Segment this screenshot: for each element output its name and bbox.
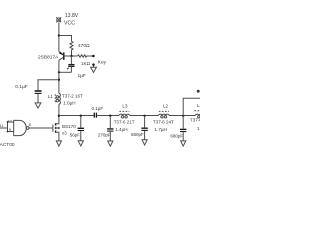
svg-text:470Ω: 470Ω	[78, 43, 90, 49]
ground under C6	[108, 141, 113, 146]
svg-text:T37-6 24T: T37-6 24T	[153, 119, 174, 124]
svg-text:11: 11	[0, 123, 4, 128]
svg-text:56pF: 56pF	[70, 132, 81, 137]
svg-text:74ACT00: 74ACT00	[0, 142, 15, 148]
ground under Q2 source	[56, 141, 61, 146]
wire gate drive	[29, 127, 53, 129]
ground under C8	[181, 141, 186, 146]
svg-text:VCC: VCC	[64, 21, 75, 27]
svg-text:1.4µH: 1.4µH	[115, 127, 127, 132]
power VCC 13.8V	[56, 13, 79, 27]
wire main line segment 3	[130, 115, 159, 117]
svg-text:L2: L2	[163, 104, 169, 109]
ground under C4	[78, 141, 83, 146]
svg-text:1.5µH: 1.5µH	[197, 126, 200, 131]
svg-text:Key: Key	[98, 59, 107, 65]
transistor Q2 BS170 MOSFET	[53, 116, 76, 141]
svg-text:2SB817A: 2SB817A	[38, 55, 59, 61]
node C6 junction	[109, 115, 111, 117]
capacitor C4 56pF	[70, 116, 84, 141]
capacitor C6 270pF	[98, 116, 114, 142]
ground under key	[91, 66, 97, 73]
capacitor C8 680pF	[170, 116, 186, 141]
capacitor C7 680pF	[131, 116, 148, 140]
svg-text:T37-6 24T: T37-6 24T	[190, 117, 200, 122]
svg-text:1.0µH: 1.0µH	[63, 101, 75, 106]
NAND gate U1A 74ACT00	[0, 119, 31, 148]
transistor Q1 2SB817A PNP	[38, 51, 64, 60]
wire branch to R1	[59, 36, 72, 42]
node output junction	[182, 115, 184, 117]
node collector junction 2	[58, 79, 60, 81]
svg-text:T37-6 21T: T37-6 21T	[114, 119, 135, 124]
svg-text:0.1µF: 0.1µF	[15, 84, 27, 90]
wire main line segment 4	[169, 115, 195, 117]
ground under C7	[142, 140, 147, 145]
ground under C1	[35, 103, 41, 108]
wire to bypass cap	[38, 80, 59, 91]
resistor R2 1K	[78, 55, 91, 66]
node VCC branch junction	[58, 34, 60, 36]
node base junction	[70, 55, 72, 57]
svg-text:1.7µH: 1.7µH	[155, 127, 167, 132]
resistor R1 470	[70, 41, 90, 56]
svg-text:x3: x3	[62, 130, 67, 135]
svg-text:0.1µF: 0.1µF	[92, 106, 104, 111]
node C4 junction	[80, 115, 82, 117]
capacitor C2 1uF	[67, 56, 86, 79]
wire L1 to drain node	[58, 104, 60, 115]
wire main line segment 1	[59, 115, 94, 117]
svg-text:BS170: BS170	[62, 124, 76, 129]
wire VCC rail down to emitter	[58, 23, 60, 52]
svg-text:8: 8	[29, 122, 31, 127]
svg-text:680pF: 680pF	[131, 132, 144, 137]
inductor L1 T37-2 16T 1.0uH	[48, 93, 83, 105]
svg-text:9: 9	[9, 127, 11, 132]
wire collector to C2	[59, 71, 72, 73]
svg-text:T37-2 16T: T37-2 16T	[62, 93, 83, 98]
node collector junction 1	[58, 71, 60, 73]
inductor L3 T37-6 21T 1.4uH	[114, 104, 135, 132]
switch J1 Key terminals	[92, 55, 107, 66]
wire output tap up and right	[183, 98, 200, 115]
wire base of Q1	[64, 55, 77, 57]
svg-text:13.8V: 13.8V	[65, 13, 79, 19]
svg-text:L1: L1	[48, 94, 54, 99]
capacitor C1 0.1uF bypass	[15, 84, 41, 103]
inductor L4 edge clipped	[190, 103, 211, 131]
inductor L2 T37-6 24T 1.7uH	[153, 104, 174, 132]
capacitor C5 0.1uF series	[92, 106, 104, 118]
svg-text:680pF: 680pF	[170, 133, 183, 138]
wire collector rail	[58, 60, 60, 93]
svg-text:270pF: 270pF	[98, 132, 111, 137]
svg-text:L4: L4	[197, 103, 200, 108]
svg-text:1KΩ: 1KΩ	[81, 61, 91, 66]
svg-text:L3: L3	[122, 104, 128, 109]
node drain junction	[58, 115, 60, 117]
node C7 junction	[143, 115, 145, 117]
wire main line segment 2	[97, 115, 119, 117]
svg-text:1µF: 1µF	[78, 73, 86, 79]
node edge terminal	[197, 90, 200, 93]
wire to key terminal	[87, 55, 93, 57]
